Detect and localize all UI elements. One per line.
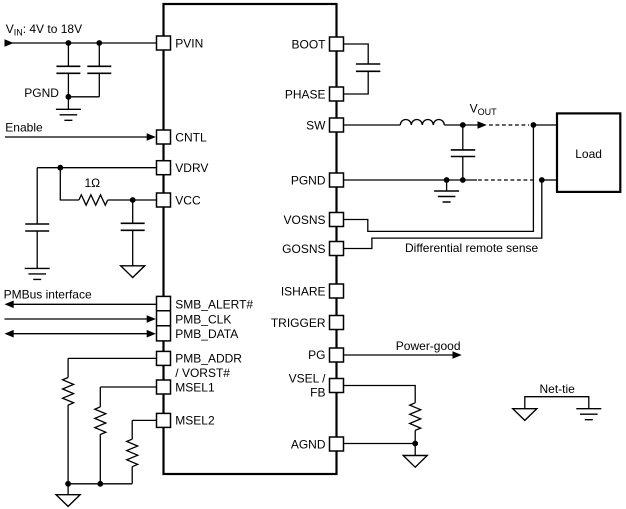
svg-text:VSEL /: VSEL /: [289, 371, 327, 385]
svg-text:VOUT: VOUT: [470, 102, 498, 118]
svg-text:Enable: Enable: [5, 121, 43, 135]
svg-text:MSEL2: MSEL2: [175, 414, 215, 428]
svg-text:Differential remote sense: Differential remote sense: [405, 241, 539, 255]
svg-text:PMB_DATA: PMB_DATA: [175, 327, 238, 341]
svg-text:Load: Load: [575, 147, 602, 161]
svg-text:VDRV: VDRV: [175, 161, 208, 175]
svg-text:/ VORST#: / VORST#: [175, 366, 230, 380]
svg-text:PMB_ADDR: PMB_ADDR: [175, 352, 242, 366]
svg-text:Power-good: Power-good: [396, 339, 461, 353]
svg-text:BOOT: BOOT: [291, 37, 326, 51]
svg-text:VCC: VCC: [175, 193, 201, 207]
svg-text:1Ω: 1Ω: [85, 176, 101, 190]
svg-text:Net-tie: Net-tie: [540, 382, 576, 396]
svg-text:ISHARE: ISHARE: [281, 284, 326, 298]
svg-text:PVIN: PVIN: [175, 36, 203, 50]
svg-text:PMB_CLK: PMB_CLK: [175, 312, 231, 326]
svg-text:GOSNS: GOSNS: [282, 242, 325, 256]
svg-text:TRIGGER: TRIGGER: [271, 316, 326, 330]
svg-text:PHASE: PHASE: [285, 87, 326, 101]
svg-text:SW: SW: [306, 118, 326, 132]
svg-text:PMBus interface: PMBus interface: [4, 288, 92, 302]
svg-text:SMB_ALERT#: SMB_ALERT#: [175, 298, 253, 312]
svg-text:FB: FB: [310, 385, 325, 399]
svg-text:MSEL1: MSEL1: [175, 380, 215, 394]
svg-text:VIN: 4V to 18V: VIN: 4V to 18V: [6, 22, 82, 38]
svg-text:PGND: PGND: [291, 173, 326, 187]
svg-text:VOSNS: VOSNS: [283, 213, 325, 227]
svg-text:AGND: AGND: [291, 437, 326, 451]
svg-text:CNTL: CNTL: [175, 130, 207, 144]
svg-text:PGND: PGND: [24, 86, 59, 100]
svg-text:PG: PG: [308, 348, 325, 362]
